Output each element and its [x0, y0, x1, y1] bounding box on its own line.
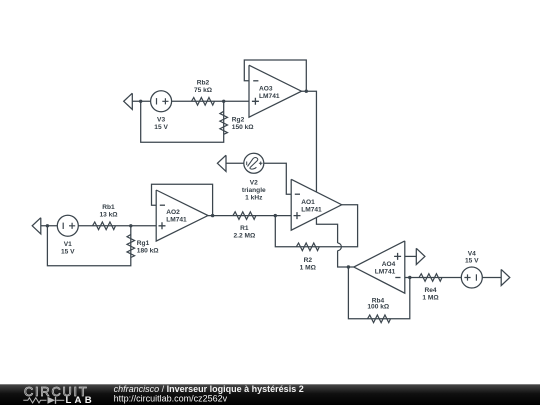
svg-text:15 V: 15 V [154, 124, 168, 131]
svg-text:100 kΩ: 100 kΩ [367, 304, 390, 311]
svg-text:75 kΩ: 75 kΩ [194, 87, 213, 94]
svg-text:LM741: LM741 [166, 217, 187, 224]
svg-text:Re4: Re4 [424, 287, 436, 294]
svg-text:LM741: LM741 [375, 268, 396, 275]
svg-text:http://circuitlab.com/cz2562v: http://circuitlab.com/cz2562v [114, 393, 228, 403]
svg-text:1 MΩ: 1 MΩ [300, 265, 317, 272]
svg-text:AO1: AO1 [301, 199, 315, 206]
svg-text:AO3: AO3 [259, 85, 273, 92]
svg-text:LM741: LM741 [301, 207, 322, 214]
svg-text:180 kΩ: 180 kΩ [137, 248, 160, 255]
svg-text:1 kHz: 1 kHz [245, 194, 263, 201]
svg-text:AO4: AO4 [382, 261, 396, 268]
svg-text:R1: R1 [240, 225, 249, 232]
svg-text:LAB: LAB [66, 395, 95, 405]
svg-text:150 kΩ: 150 kΩ [232, 124, 255, 131]
svg-text:Rg2: Rg2 [232, 117, 245, 124]
svg-text:15 V: 15 V [61, 249, 75, 256]
svg-text:Rb1: Rb1 [102, 204, 115, 211]
svg-text:13 kΩ: 13 kΩ [99, 212, 118, 219]
svg-text:triangle: triangle [242, 187, 266, 194]
svg-text:2.2 MΩ: 2.2 MΩ [234, 232, 256, 239]
svg-text:V3: V3 [157, 117, 165, 124]
svg-text:LM741: LM741 [259, 93, 280, 100]
svg-text:15 V: 15 V [465, 257, 479, 264]
svg-text:V4: V4 [468, 250, 476, 257]
svg-text:Rb2: Rb2 [197, 79, 210, 86]
svg-text:R2: R2 [304, 257, 313, 264]
svg-text:AO2: AO2 [166, 209, 180, 216]
svg-text:1 MΩ: 1 MΩ [422, 295, 439, 302]
svg-text:Rg1: Rg1 [137, 240, 150, 247]
svg-text:V1: V1 [64, 241, 72, 248]
svg-text:V2: V2 [250, 179, 258, 186]
